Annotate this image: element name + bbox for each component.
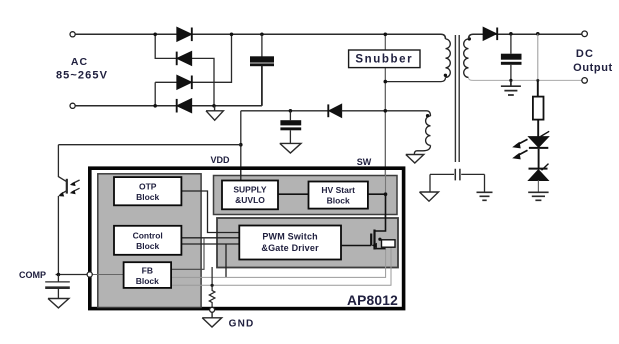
internal wire gate return [225, 244, 227, 277]
internal wire sense L2 [171, 247, 391, 285]
svg-text:DC: DC [576, 48, 594, 60]
ground GND chip [202, 312, 222, 327]
internal wire FB vertical [171, 238, 204, 269]
wire bottom AC rail [75, 105, 262, 107]
svg-text:Block: Block [327, 196, 350, 206]
ground aux [406, 155, 424, 164]
snubber box [349, 50, 420, 68]
gray panel pwm [217, 218, 398, 268]
svg-text:&UVLO: &UVLO [235, 195, 265, 205]
transformer T1 secondary winding [464, 39, 469, 77]
block Control [114, 226, 181, 255]
transistor M1 power MOSFET [341, 194, 386, 249]
zener D8 [529, 164, 549, 181]
svg-text:Block: Block [136, 241, 159, 251]
gray panel supply [214, 176, 398, 215]
block SUPPLY UVLO [222, 181, 278, 210]
ground bridge [206, 106, 223, 120]
junction dots output [509, 32, 539, 36]
wire bridge left vertical bottom [154, 82, 156, 106]
junction dot COMP [57, 273, 61, 277]
svg-text:SUPPLY: SUPPLY [233, 185, 267, 195]
wire bridge row3 [155, 81, 177, 83]
DC output terminal bottom [582, 78, 588, 84]
optocoupler transistor Q1 [58, 145, 79, 275]
wire bridge row3 to top rail [192, 34, 232, 82]
svg-text:OTP: OTP [139, 182, 157, 192]
DC output terminal top [582, 31, 588, 37]
ground Y-cap left [420, 192, 439, 201]
internal wire OTP to PWM [181, 191, 239, 233]
diode D6 output rectifier [483, 28, 497, 41]
wire bridge row2 right [192, 58, 215, 105]
transformer T1 aux winding [426, 116, 431, 145]
svg-text:PWM Switch: PWM Switch [262, 232, 318, 242]
diode D1 bridge top [177, 28, 192, 42]
block FB [124, 262, 172, 288]
svg-text:Block: Block [136, 192, 159, 202]
IC AP8012 outer box [90, 168, 404, 308]
label DC Output [573, 48, 613, 74]
transformer core [455, 35, 459, 162]
svg-text:Snubber: Snubber [355, 54, 413, 66]
wire bridge left vertical top [155, 34, 177, 58]
wire opto collector to VDD [58, 144, 240, 146]
wire resistor to LED [537, 120, 539, 137]
svg-text:COMP: COMP [19, 270, 46, 280]
diode D4 bridge bottom [177, 99, 192, 113]
sense box M1 [382, 240, 396, 247]
junction dot sense [211, 284, 214, 287]
wire secondary bottom lead [469, 78, 583, 81]
resistor R1 [533, 97, 544, 120]
wire top AC rail [75, 34, 445, 39]
junction dot SW aux cross [384, 109, 388, 113]
junction dot opto branch [536, 79, 539, 82]
wire to resistor [537, 80, 539, 96]
phase dot secondary [468, 37, 471, 40]
capacitor C1 bulk [250, 34, 274, 106]
wire aux diode to winding [342, 111, 431, 116]
capacitor C4 COMP [45, 275, 70, 299]
internal wire Control to PWM 2 [181, 243, 239, 245]
pin circle GND [210, 307, 215, 312]
wire secondary top lead [469, 34, 583, 39]
svg-text:Control: Control [133, 231, 163, 241]
block PWM Switch [239, 226, 341, 260]
phase dot primary [444, 74, 447, 77]
capacitor C3 output [501, 34, 522, 80]
gray panel left [98, 174, 201, 308]
block OTP [114, 177, 181, 205]
earth ground Y-cap right [477, 192, 493, 200]
transformer T1 primary winding [446, 39, 451, 77]
junction dot output cap gnd [509, 79, 512, 82]
phase dot aux [426, 114, 429, 117]
AC input terminal top [70, 32, 75, 37]
junction dot snubber top [384, 33, 388, 37]
junction dot VDD opto [239, 143, 243, 147]
wire VDD down into chip [240, 111, 242, 181]
wire VDD line [241, 110, 328, 112]
wire opto branch upper [537, 34, 539, 81]
svg-text:Output: Output [573, 62, 613, 74]
wire zener to ground [537, 180, 539, 192]
ground C2 [280, 143, 301, 153]
wire snubber vertical SW [384, 34, 386, 231]
pin circle COMP [87, 272, 92, 277]
internal wire sense L1 [171, 249, 386, 277]
capacitor C5 Y-cap [430, 169, 485, 181]
diode D3 bridge third [177, 76, 192, 90]
resistor R2 sense [209, 267, 215, 307]
svg-text:85~265V: 85~265V [56, 70, 108, 82]
svg-text:SW: SW [357, 157, 372, 167]
capacitor C2 VDD [280, 109, 301, 143]
junction dot HV SW [384, 192, 388, 196]
junction dots bridge [153, 33, 263, 108]
wire Y-cap right drop [484, 174, 486, 192]
diode D5 aux rectifier [328, 104, 341, 117]
svg-text:Block: Block [136, 276, 159, 286]
block HV Start [309, 182, 368, 209]
junction dot primary bottom [384, 80, 388, 84]
LED D7 optocoupler [512, 131, 549, 159]
internal wire Control to PWM 1 [181, 237, 239, 239]
wire SW crossing supply panel [385, 170, 387, 194]
wire aux bottom curl [414, 145, 430, 154]
diode D2 bridge second [177, 52, 192, 66]
internal wire SUPPLY to HV [278, 193, 309, 195]
AC input terminal bottom [70, 103, 75, 108]
svg-text:GND: GND [229, 319, 255, 330]
wire VDD crossing panel top [240, 170, 242, 180]
wire Y-cap left drop [429, 174, 431, 192]
wire COMP [56, 274, 88, 276]
wire primary bottom to SW [385, 77, 445, 81]
svg-text:VDD: VDD [210, 155, 230, 165]
svg-text:AC: AC [71, 56, 88, 68]
earth ground zener [528, 192, 548, 200]
svg-text:AP8012: AP8012 [347, 293, 398, 308]
label AC 85~265V [56, 56, 108, 82]
earth ground output [501, 80, 521, 95]
internal wire COMP to FB [92, 274, 123, 276]
internal wire HV to SW [368, 193, 386, 195]
svg-text:HV Start: HV Start [321, 185, 355, 195]
svg-text:FB: FB [142, 265, 153, 275]
ground C4 [48, 299, 69, 308]
wire LED to zener [538, 149, 540, 168]
svg-text:&Gate Driver: &Gate Driver [261, 243, 319, 253]
